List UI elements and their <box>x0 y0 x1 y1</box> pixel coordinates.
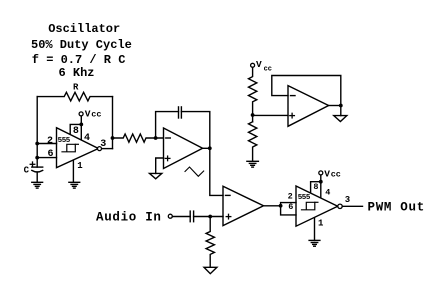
label Vcc U5 <box>324 169 341 180</box>
capacitor feedback plates U2 <box>179 107 182 118</box>
label Vcc divider <box>256 59 272 73</box>
label Audio In <box>96 210 162 224</box>
svg-text:8: 8 <box>73 126 79 137</box>
pin 1 label U1 <box>77 161 83 171</box>
pin 1 wire U1 <box>72 160 74 182</box>
node junction R / R2 / pin3 <box>111 136 115 140</box>
op-amp U2 integrator triangle <box>164 128 203 169</box>
svg-text:V: V <box>256 59 262 70</box>
wire feedback right leg U2 <box>181 112 209 149</box>
wire C to ground <box>36 172 38 182</box>
wire pin 3 output U5 <box>342 205 362 207</box>
terminal Vcc circle U5 <box>319 171 323 175</box>
minus input label U2 <box>166 137 171 139</box>
node junction R2 / feedback C <box>154 136 158 140</box>
wire output U4 <box>329 105 341 107</box>
svg-text:2: 2 <box>47 136 53 147</box>
plus input label U4 <box>290 113 295 118</box>
node audio junction <box>208 215 212 219</box>
pin 8 wire U5 <box>311 182 321 198</box>
node output U2 junction <box>208 146 212 150</box>
node pin8/Vcc junction U5 <box>319 180 323 184</box>
minus input label U3 <box>226 194 231 196</box>
pin 2 wire U1 <box>37 143 56 145</box>
pin 3 label U1 <box>100 139 106 150</box>
title text f = 0.7 / R C <box>32 53 126 67</box>
label Vcc U1 <box>85 109 102 120</box>
ground earth under pin1 U5 <box>309 240 320 246</box>
pin 3 output circle U5 <box>338 204 342 208</box>
pin 3 label U5 <box>345 195 350 205</box>
svg-text:4: 4 <box>325 187 330 197</box>
wire cap to plus input U3 <box>194 216 223 218</box>
resistor divider top <box>249 67 257 121</box>
svg-text:PWM Out: PWM Out <box>368 200 425 214</box>
svg-text:8: 8 <box>313 182 318 192</box>
svg-text:C: C <box>24 166 30 176</box>
capacitor coupling plates <box>190 211 193 222</box>
pin 6 label U1 <box>48 149 54 160</box>
svg-text:6 Khz: 6 Khz <box>59 66 95 80</box>
wire output U3 <box>264 205 281 207</box>
title text Oscillator <box>48 22 120 36</box>
svg-text:Oscillator: Oscillator <box>48 22 120 36</box>
ground earth under pin1 U1 <box>69 182 80 188</box>
pin 3 output circle U1 <box>98 147 102 151</box>
op-amp 555 U1 triangle <box>57 128 99 168</box>
ground earth under divider <box>247 161 259 167</box>
resistor R2 to integrator <box>113 134 164 142</box>
plus input label U2 <box>165 156 170 161</box>
wire feedback loop U4 <box>272 76 341 106</box>
label 555 U5 <box>298 194 311 202</box>
terminal Vcc circle U1 <box>79 112 83 116</box>
ground earth under C <box>32 182 43 188</box>
wire left rail from R to pin2/pin6/C <box>36 97 38 168</box>
capacitor C curved plate <box>32 170 43 172</box>
terminal circle Audio In <box>168 214 172 218</box>
node pin8/Vcc junction <box>79 123 83 127</box>
wire pin3 output of 555 U1 <box>102 148 113 150</box>
triangle wave glyph <box>185 167 204 176</box>
wire Vcc stem U1 <box>80 116 82 124</box>
pin 6 label U5 <box>288 202 293 212</box>
capacitor C label <box>24 166 30 176</box>
resistor audio to ground <box>206 217 214 268</box>
wire Vcc stem U5 <box>320 175 322 182</box>
pin 4 label U5 <box>325 187 330 197</box>
svg-text:1: 1 <box>77 161 83 171</box>
op-amp 555 U5 triangle <box>296 186 338 226</box>
wire output U2 <box>203 147 210 149</box>
pin 8 label U5 <box>313 182 318 192</box>
capacitor C top plate <box>32 166 43 168</box>
wire Audio In to coupling cap <box>172 216 190 218</box>
node pin2 junction <box>35 142 39 146</box>
svg-text:50% Duty Cycle: 50% Duty Cycle <box>31 38 132 52</box>
pin 1 wire U5 <box>314 218 316 241</box>
ground triangle U4 output <box>334 106 347 122</box>
svg-text:6: 6 <box>288 202 293 212</box>
wire input box U5 pins 2 and 6 <box>281 203 296 215</box>
resistor R label <box>73 82 79 92</box>
svg-text:R: R <box>73 82 79 92</box>
svg-text:1: 1 <box>318 219 324 229</box>
pin 8 label U1 <box>73 126 79 137</box>
capacitor C plus sign <box>30 162 35 167</box>
wire plus input U2 to ground <box>156 158 164 173</box>
label PWM Out <box>368 200 425 214</box>
terminal Vcc circle divider <box>251 63 255 67</box>
op-amp U4 follower triangle <box>288 86 329 127</box>
svg-text:6: 6 <box>48 149 54 160</box>
ground triangle U2 plus input <box>150 173 162 178</box>
resistor divider bottom <box>249 122 257 162</box>
wire feedback left leg U2 <box>156 112 179 138</box>
plus input label U3 <box>226 214 231 219</box>
node comparator to 555 U5 junction <box>279 204 283 208</box>
svg-text:cc: cc <box>264 66 272 74</box>
svg-text:V: V <box>324 169 330 180</box>
svg-text:V: V <box>85 109 91 120</box>
svg-text:cc: cc <box>331 170 341 180</box>
pin 6 wire U1 <box>37 157 56 159</box>
title text 6 Khz <box>59 66 95 80</box>
svg-text:3: 3 <box>345 195 350 205</box>
svg-text:3: 3 <box>100 139 106 150</box>
svg-text:555: 555 <box>298 194 311 202</box>
node pin6 junction <box>35 156 39 160</box>
svg-text:Audio In: Audio In <box>96 210 162 224</box>
svg-text:cc: cc <box>91 110 101 120</box>
title text 50% Duty Cycle <box>31 38 132 52</box>
pin 1 label U5 <box>318 219 324 229</box>
svg-text:4: 4 <box>84 133 90 144</box>
node divider junction <box>251 113 255 117</box>
svg-text:2: 2 <box>288 192 293 202</box>
minus input label U4 <box>291 95 296 97</box>
pin 2 label U5 <box>288 192 293 202</box>
node output U4 junction <box>339 104 343 108</box>
op-amp U3 comparator triangle <box>223 186 264 225</box>
square wave glyph U5 <box>302 202 318 210</box>
label 555 U1 <box>58 137 71 145</box>
wire divider to plus input U4 <box>253 114 288 116</box>
square wave glyph U1 <box>62 144 78 152</box>
wire U2 output down to comparator minus <box>210 148 223 195</box>
resistor R <box>37 92 112 101</box>
pin 2 label U1 <box>47 136 53 147</box>
ground triangle audio resistor <box>204 267 217 273</box>
pin 8 wire U1 <box>70 124 81 139</box>
pin 4 label U1 <box>84 133 90 144</box>
wire right rail from R down to node at resistor R2 <box>112 97 114 149</box>
